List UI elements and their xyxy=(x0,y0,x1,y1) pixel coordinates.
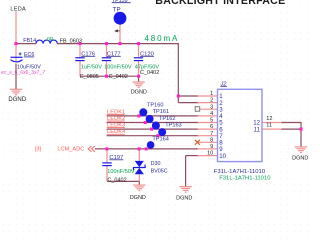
svg-text:TP159: TP159 xyxy=(112,0,128,4)
svg-text:TP161: TP161 xyxy=(153,109,169,115)
svg-text:5: 5 xyxy=(210,118,213,124)
svg-text:F31L-1A7H1-11010: F31L-1A7H1-11010 xyxy=(219,176,271,182)
svg-text:1: 1 xyxy=(210,91,213,97)
svg-text:11: 11 xyxy=(266,123,272,129)
svg-text:FB14: FB14 xyxy=(23,38,36,44)
svg-text:1uF/50V: 1uF/50V xyxy=(81,64,102,70)
svg-text:7: 7 xyxy=(210,131,213,137)
svg-text:FB_0603: FB_0603 xyxy=(60,39,82,45)
svg-text:DGND: DGND xyxy=(292,156,308,162)
svg-text:[3]: [3] xyxy=(35,147,41,153)
svg-text:LCM_ADC: LCM_ADC xyxy=(57,147,84,153)
svg-text:480mA: 480mA xyxy=(144,34,179,43)
svg-text:8: 8 xyxy=(210,137,213,143)
svg-text:12: 12 xyxy=(266,116,272,122)
svg-text:2: 2 xyxy=(210,98,213,104)
svg-text:DGND: DGND xyxy=(131,89,147,95)
svg-text:3: 3 xyxy=(210,104,213,110)
svg-text:C_0402: C_0402 xyxy=(107,178,126,184)
svg-text:DGND: DGND xyxy=(8,97,26,103)
svg-text:100nF/50V: 100nF/50V xyxy=(107,169,135,175)
svg-text:TP160: TP160 xyxy=(147,102,163,108)
svg-text:0R: 0R xyxy=(47,37,54,43)
svg-text:BACKLIGHT INTERFACE: BACKLIGHT INTERFACE xyxy=(155,0,285,7)
svg-text:10: 10 xyxy=(219,153,226,160)
svg-text:TP163: TP163 xyxy=(165,122,181,128)
svg-text:DGND: DGND xyxy=(130,195,146,201)
svg-text:C_0402: C_0402 xyxy=(140,70,159,76)
svg-text:9: 9 xyxy=(210,144,213,150)
svg-text:11: 11 xyxy=(254,126,261,133)
svg-text:DGND: DGND xyxy=(176,195,192,201)
svg-text:TP164: TP164 xyxy=(152,137,168,143)
svg-text:LEDA: LEDA xyxy=(10,7,26,13)
svg-text:BV05C: BV05C xyxy=(151,169,168,175)
svg-text:C_0805: C_0805 xyxy=(80,74,99,80)
svg-text:F31L-1A7H1-11010: F31L-1A7H1-11010 xyxy=(214,169,266,175)
svg-text:10: 10 xyxy=(207,151,213,157)
svg-text:6: 6 xyxy=(210,124,213,130)
svg-text:D30: D30 xyxy=(151,161,161,167)
svg-text:TP: TP xyxy=(113,6,121,13)
svg-text:C_0402: C_0402 xyxy=(109,74,128,80)
svg-text:100nF/50V: 100nF/50V xyxy=(104,64,132,70)
svg-text:4: 4 xyxy=(210,111,213,117)
svg-text:TP162: TP162 xyxy=(159,116,175,122)
svg-text:ec_s_6_6x6_3x7_7: ec_s_6_6x6_3x7_7 xyxy=(1,70,45,76)
